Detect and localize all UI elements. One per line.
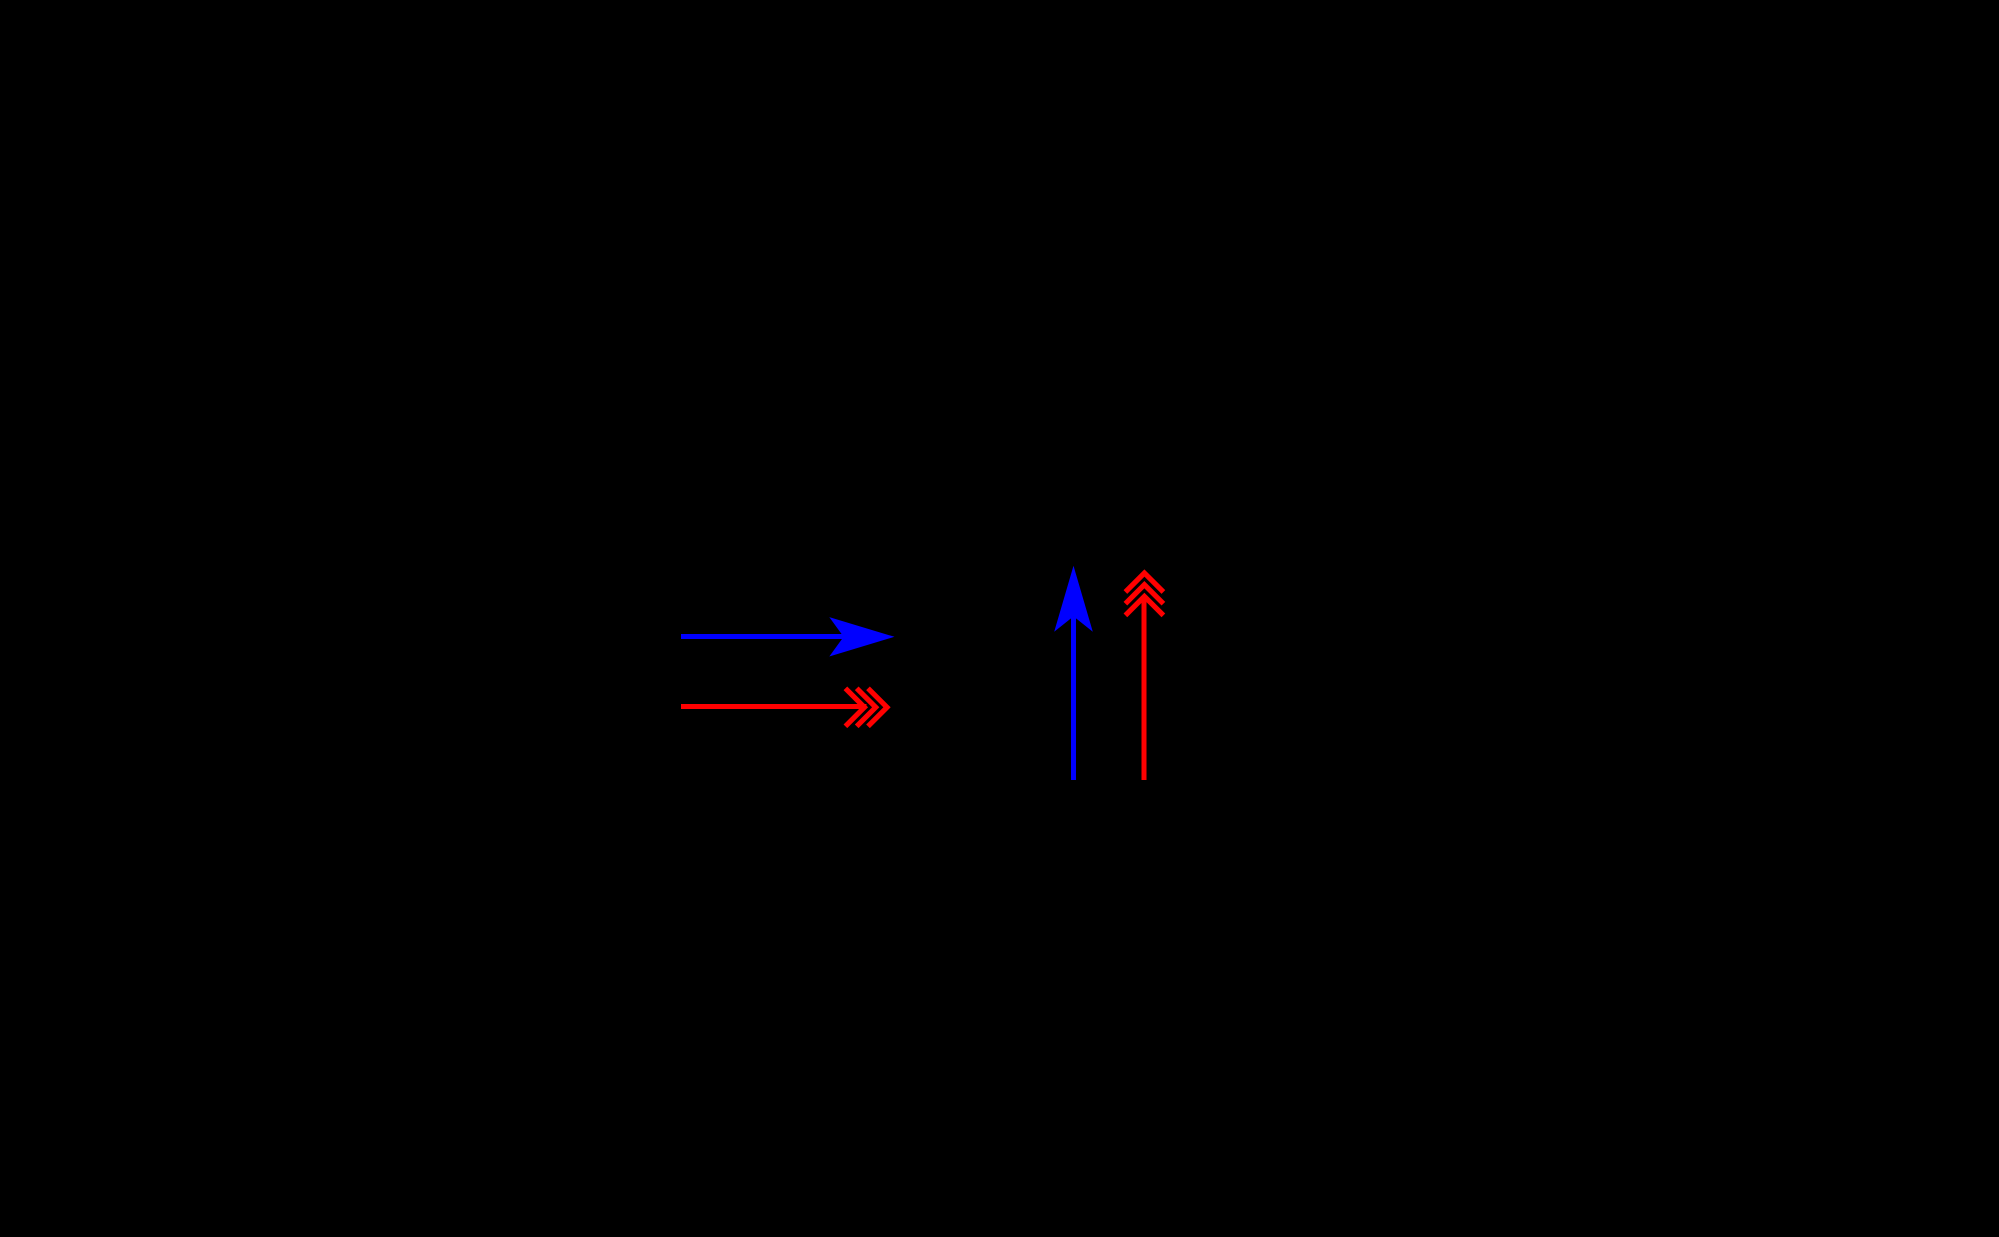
red vertical vector arrow: shaft	[1142, 597, 1147, 780]
blue vertical vector arrow: shaft	[1071, 617, 1076, 780]
blue vertical vector arrow: stealth head	[1054, 566, 1093, 632]
blue horizontal vector arrow: shaft	[681, 634, 853, 639]
red horizontal vector arrow: triple chevron head	[845, 688, 887, 726]
red horizontal vector arrow: shaft	[681, 704, 867, 709]
red vertical vector arrow: triple chevron head	[1125, 573, 1163, 615]
blue horizontal vector arrow: stealth head	[829, 617, 894, 656]
